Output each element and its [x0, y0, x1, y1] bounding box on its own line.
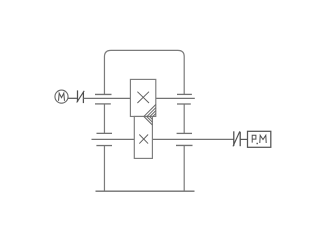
upper hatch line 2	[147, 108, 156, 117]
input left bearing bottom bar	[95, 103, 111, 105]
output shaft right part	[151, 138, 234, 140]
housing left wall segment lower	[103, 146, 105, 192]
coupling 2 left bar	[233, 131, 235, 146]
coupling 1 right bar	[82, 92, 84, 103]
output shaft left part	[92, 138, 137, 140]
upper hatch hypotenuse	[144, 105, 156, 117]
housing top rounded outline	[104, 50, 184, 94]
shaft coupling2 to PM box	[240, 138, 247, 140]
PM label letter P	[252, 135, 256, 142]
housing right wall segment mid	[183, 104, 185, 133]
PM box	[248, 131, 271, 147]
input shaft left part	[83, 97, 131, 99]
lower hatch line 3	[150, 117, 153, 120]
X lower stroke 1	[139, 135, 148, 144]
motor circle	[55, 90, 68, 103]
input shaft right part	[154, 97, 194, 99]
housing left wall segment mid	[103, 104, 105, 133]
input left bearing top bar	[95, 93, 112, 95]
PM label dot	[257, 143, 258, 144]
upper hatch line 3	[150, 111, 156, 117]
motor letter M	[59, 93, 65, 101]
input right bearing bottom bar	[177, 103, 191, 105]
input right bearing top bar	[177, 93, 192, 95]
lower hatch hypotenuse	[144, 117, 153, 126]
PM label letter M	[260, 135, 266, 143]
X lower stroke 2	[139, 135, 148, 144]
base line	[96, 190, 195, 192]
upper hatch line 4	[153, 114, 156, 117]
output right bearing top bar	[177, 132, 192, 134]
coupling 1 left bar	[77, 90, 79, 102]
gear box lower (wheel)	[134, 116, 152, 158]
coupling 1 diagonal	[77, 91, 85, 103]
X upper stroke 2	[137, 92, 149, 103]
housing right wall segment lower	[183, 145, 185, 191]
output right bearing bottom bar	[176, 144, 193, 146]
input shaft motor to coupling	[68, 97, 78, 99]
coupling 2 diagonal	[233, 131, 240, 146]
lower hatch line 2	[147, 117, 153, 123]
coupling 2 right bar	[239, 132, 241, 146]
X upper stroke 1	[137, 92, 149, 103]
gear box upper (pinion)	[130, 79, 155, 116]
output left bearing top bar	[97, 132, 113, 134]
output left bearing bottom bar	[96, 145, 112, 147]
